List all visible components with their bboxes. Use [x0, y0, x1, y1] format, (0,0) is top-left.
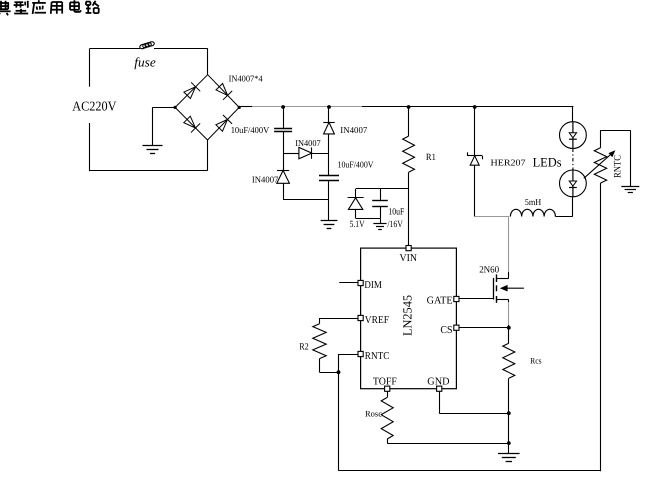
resistor R1: [403, 136, 415, 172]
wire D6 to C2: [328, 134, 330, 175]
pin GATE square: [454, 296, 459, 301]
title 典型应用电路: [0, 0, 99, 15]
svg-text:5.1V: 5.1V: [350, 220, 365, 230]
thermistor RNTC arrow: [584, 153, 613, 178]
wire HER207 to inductor grey: [475, 216, 510, 218]
diode D6 IN4007 up: [323, 122, 334, 124]
diode D5 IN4007 horizontal: [299, 147, 312, 158]
pin CS square: [454, 325, 459, 330]
ground bridge: [143, 145, 163, 147]
wire rail grey: [252, 106, 362, 108]
wire DIM stub: [339, 282, 358, 284]
svg-text:CS: CS: [440, 325, 452, 336]
svg-text:LEDs: LEDs: [533, 154, 562, 169]
svg-text:IN4007: IN4007: [295, 138, 321, 148]
zener Z1 5.1V: [348, 197, 364, 199]
svg-text:GATE: GATE: [427, 296, 453, 307]
svg-text:IN4007: IN4007: [252, 175, 279, 185]
wire zener gnd stub: [380, 218, 382, 223]
wire Q1 source: [497, 299, 509, 301]
wire bridge edge L-B: [175, 107, 207, 140]
wire ac top-right: [154, 48, 208, 50]
svg-text:10uF/400V: 10uF/400V: [231, 125, 270, 135]
node Rosc-gnd junction: [507, 441, 511, 445]
svg-text:fuse: fuse: [134, 55, 156, 70]
svg-text:5mH: 5mH: [525, 197, 542, 207]
wire ac top-left: [90, 48, 140, 50]
wire RNTC top lead: [600, 130, 602, 148]
svg-text:TOFF: TOFF: [373, 376, 397, 387]
svg-text:/16V: /16V: [387, 220, 403, 230]
svg-text:VREF: VREF: [365, 315, 389, 326]
wire TOFF lead: [387, 391, 389, 397]
node rail D6: [327, 105, 331, 109]
wire Q1 source drop2: [508, 325, 510, 343]
transistor Q1 body arrow: [506, 287, 524, 289]
wire bottom rail: [339, 470, 601, 472]
wire rail black1: [239, 106, 252, 108]
pin VIN square: [406, 246, 411, 251]
wire ac left lower: [89, 123, 91, 171]
svg-text:Rcs: Rcs: [530, 355, 542, 365]
svg-text:IN4007*4: IN4007*4: [229, 74, 263, 84]
wire VREF lead: [320, 318, 359, 320]
diode D4 IN4007 (B-R): [216, 119, 228, 131]
wire zener rail: [356, 188, 409, 190]
inductor L1 5mH: [510, 209, 555, 216]
transistor Q1 channel bars: [496, 274, 498, 282]
svg-text:LN2545: LN2545: [401, 295, 415, 336]
fuse F1: [139, 41, 155, 49]
wire bridge left to ground: [153, 107, 176, 109]
wire HER207 top lead: [474, 107, 476, 156]
wire Rcs bottom: [508, 378, 510, 453]
transistor Q1 2N60 gate bar: [493, 278, 495, 300]
wire RNTC gnd drop: [630, 130, 632, 187]
wire CS lead: [459, 327, 509, 329]
svg-text:10uF: 10uF: [388, 208, 404, 218]
wire bridge edge B-R: [208, 107, 240, 140]
svg-text:Rosc: Rosc: [365, 409, 382, 419]
node rail R1: [407, 105, 411, 109]
svg-text:RNTC: RNTC: [613, 155, 624, 178]
wire Rosc bottom: [387, 439, 389, 443]
diode D3 IN4007 (L-B): [184, 116, 196, 128]
pin DIM square: [358, 280, 363, 285]
ground zener: [373, 223, 386, 225]
wire Q1 source drop grey: [508, 302, 510, 325]
wire ac bottom: [90, 170, 208, 172]
wire node A left: [283, 153, 299, 155]
wire Q1 drain: [497, 278, 509, 280]
resistor Rcs: [503, 343, 515, 378]
wire rntc right riser: [600, 183, 602, 471]
node rail HER207: [473, 105, 477, 109]
capacitor C1 10uF/400V: [274, 128, 292, 130]
ground RNTC: [621, 186, 639, 188]
wire inductor to LED string: [555, 216, 572, 218]
pin GND square: [437, 386, 442, 391]
diode D7 IN4007 up: [277, 170, 289, 172]
wire C1 top lead: [283, 107, 285, 128]
node R2-RNTC junction: [337, 370, 341, 374]
node bridge right vertex: [238, 106, 241, 109]
wire R1 to VIN: [408, 172, 410, 245]
wire ac right drop: [207, 48, 209, 74]
node GND junction: [507, 411, 511, 415]
wire bridge edge L-T: [175, 75, 208, 108]
node rail C1: [281, 105, 285, 109]
IC U1 LN2545 box: [361, 248, 457, 389]
svg-text:HER207: HER207: [491, 157, 527, 167]
wire HER207 bottom lead: [474, 165, 476, 216]
wire zener-cap bottom: [356, 218, 380, 220]
ground main: [498, 453, 520, 455]
svg-text:2N60: 2N60: [479, 266, 499, 276]
wire ac left upper: [89, 48, 91, 86]
LED DL2 circle: [560, 170, 587, 197]
wire C1 bottom lead: [283, 132, 285, 154]
wire bridge edge T-R: [208, 75, 240, 108]
ground valley: [321, 220, 338, 222]
wire R2 bottom: [319, 359, 321, 373]
pin VREF square: [358, 315, 363, 320]
diode D1 IN4007 (L-T): [184, 87, 196, 99]
diode D8 HER207: [467, 155, 482, 157]
thermistor RNTC: [594, 148, 606, 183]
svg-text:RNTC: RNTC: [365, 351, 390, 362]
pin TOFF square: [385, 386, 390, 391]
wire R1 top lead: [408, 107, 410, 136]
wire GND lead: [439, 391, 441, 413]
wire Q1 drain riser grey: [508, 217, 510, 273]
resistor R2: [313, 324, 326, 359]
svg-text:10uF/400V: 10uF/400V: [338, 160, 374, 170]
LED DL1 symbol: [572, 122, 574, 133]
wire D7 to bottom: [283, 183, 285, 200]
resistor Rosc: [381, 397, 393, 439]
svg-text:VIN: VIN: [400, 253, 418, 264]
capacitor C3 10uF/16V: [372, 200, 388, 202]
LED DL2 symbol: [572, 170, 574, 181]
wire C2 bottom lead: [328, 180, 330, 220]
wire zener top lead: [355, 189, 357, 198]
wire GATE lead: [459, 298, 494, 300]
svg-text:R1: R1: [426, 153, 436, 163]
svg-text:IN4007: IN4007: [340, 125, 367, 135]
svg-text:R2: R2: [299, 343, 309, 353]
diode D2 IN4007 (T-R): [216, 84, 228, 96]
wire rail black2: [362, 106, 573, 108]
wire LED dashed link: [572, 149, 574, 171]
pin RNTC square: [358, 351, 363, 356]
wire C3 top lead: [380, 189, 382, 201]
wire valley bottom: [283, 199, 329, 201]
wire zener bottom lead: [355, 209, 357, 218]
wire node A right: [312, 153, 329, 155]
wire C3 bottom lead: [380, 206, 382, 218]
node CS junction: [507, 326, 511, 330]
LED DL1 circle: [560, 122, 587, 149]
wire RNTC lead: [339, 354, 359, 356]
svg-text:AC220V: AC220V: [72, 99, 116, 114]
wire rail corner to LED1: [572, 106, 574, 121]
wire bridge bottom lead: [207, 140, 209, 171]
capacitor C2 10uF/400V: [319, 175, 339, 177]
wire D6 top lead: [328, 107, 330, 122]
svg-text:GND: GND: [427, 376, 450, 387]
svg-text:DIM: DIM: [364, 280, 382, 291]
wire below A: [283, 153, 285, 170]
node bridge left vertex: [174, 106, 177, 109]
